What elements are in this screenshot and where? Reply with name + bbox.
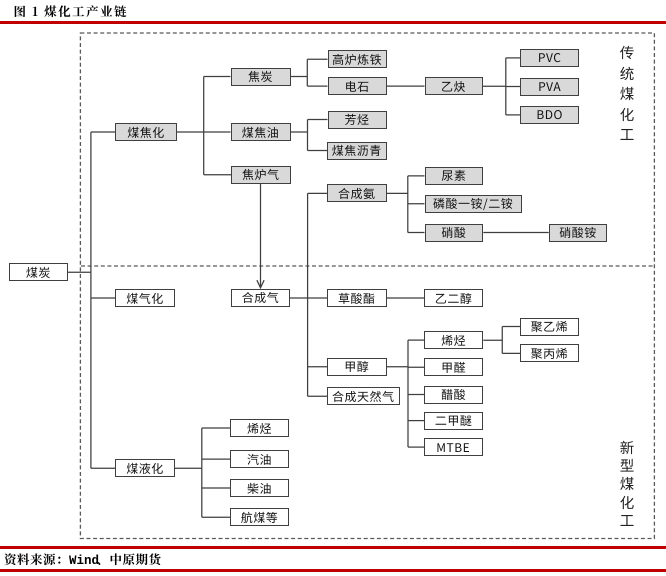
box 合成氨 <box>327 184 387 202</box>
branch vertical pvc <box>505 58 507 115</box>
dashed frame border <box>80 33 654 539</box>
box PVC <box>520 49 579 67</box>
box 煤焦沥青 <box>327 142 387 160</box>
box 烯烃 <box>230 419 289 437</box>
wire to PVC <box>506 57 520 59</box>
wire to xiting b <box>202 427 230 429</box>
box 草酸酯 <box>327 289 387 307</box>
wire to BDO <box>506 114 520 116</box>
footer red rule lower <box>0 569 666 572</box>
box 电石 <box>328 77 387 95</box>
wire to qiyou <box>202 458 230 460</box>
box 尿素 <box>425 167 484 185</box>
box 醋酸 <box>424 386 483 404</box>
box 煤焦油 <box>231 123 291 141</box>
wire to jiaotan <box>204 76 231 78</box>
branch vertical olefin <box>501 327 503 354</box>
top red rule <box>0 21 666 23</box>
box 乙二醇 <box>424 289 483 307</box>
wire trunk to meiyehua <box>91 467 115 469</box>
label 新型煤化工 <box>619 439 635 530</box>
box 高炉炼铁 <box>328 50 387 68</box>
wire to erjiami <box>408 420 424 422</box>
box 聚乙烯 <box>520 318 579 336</box>
box PVA <box>520 78 579 96</box>
wire to PVA <box>506 86 520 88</box>
wire rail to jiachun <box>308 366 327 368</box>
wire to MTBE <box>408 446 424 448</box>
box 硝酸铵 <box>549 224 608 242</box>
branch vertical liquefaction <box>201 428 203 517</box>
wire rail to SNG <box>308 395 327 397</box>
box 煤液化 <box>115 459 175 477</box>
wire to xiting m <box>408 339 424 341</box>
wire to jiaquan <box>408 366 424 368</box>
footer red rule upper <box>0 546 666 549</box>
wire hechengqi to caosuanzhi <box>290 297 327 299</box>
box 磷酸一铵/二铵 <box>425 195 522 213</box>
box 聚丙烯 <box>520 344 579 362</box>
box 乙炔 <box>425 77 483 95</box>
wire meijiaoyou to branch <box>291 131 308 133</box>
wire xiaosuan to xiaosuanan <box>483 232 548 234</box>
wire coal to trunk <box>68 271 91 273</box>
box 柴油 <box>230 479 289 497</box>
wire meijiaohua to branch <box>177 131 204 133</box>
box MTBE <box>424 438 483 456</box>
wire to linsuan <box>408 203 425 205</box>
box BDO <box>520 106 579 124</box>
wire trunk to meijiaohua <box>91 131 115 133</box>
wire meiyehua to branch <box>175 467 202 469</box>
wire to gaolu <box>307 58 327 60</box>
box 硝酸 <box>425 224 484 242</box>
wire to xiaosuan <box>408 232 425 234</box>
branch vertical ammonia <box>407 176 409 233</box>
wire syngas rail vertical <box>307 193 309 396</box>
wire to fangting <box>308 119 328 121</box>
branch vertical coking <box>203 77 205 175</box>
box 芳烃 <box>328 111 387 129</box>
wire trunk to meiqihua <box>91 297 115 299</box>
box 煤气化 <box>115 289 175 307</box>
box 二甲醚 <box>424 412 483 430</box>
box 合成天然气 <box>327 387 400 405</box>
branch vertical methanol <box>407 340 409 447</box>
branch vertical jiaotan <box>306 59 308 86</box>
trunk vertical from coal branches <box>90 132 92 468</box>
footer source text <box>4 550 162 568</box>
wire caosuanzhi to yierchun <box>387 297 425 299</box>
wire xiting to branch <box>483 339 502 341</box>
wire to cusuan <box>408 394 424 396</box>
wire to jubingxi <box>502 352 520 354</box>
box 甲醛 <box>424 358 483 376</box>
box 焦炭 <box>231 68 291 86</box>
wire jiachun to branch <box>387 366 409 368</box>
wire to meijiaoyou <box>204 131 231 133</box>
box 汽油 <box>230 450 289 468</box>
box 烯烃 <box>424 331 483 349</box>
wire jiaotan to branch <box>291 76 308 78</box>
wire yiqueng to branch <box>483 85 506 87</box>
box 焦炉气 <box>231 166 291 184</box>
title 图 1 煤化工产业链 <box>14 2 129 20</box>
dashed divider traditional/new <box>81 265 654 267</box>
box 煤焦化 <box>115 123 177 141</box>
wire to liqing <box>308 150 328 152</box>
wire to juyixi <box>502 326 520 328</box>
box 航煤等 <box>230 508 289 526</box>
box 煤炭 <box>9 263 68 281</box>
wire hechengan to branch <box>387 192 408 194</box>
wire to niaosu <box>408 175 425 177</box>
wire to jiaoluqi <box>204 174 231 176</box>
branch vertical tar <box>307 120 309 151</box>
wire rail to hechengan <box>308 192 327 194</box>
arrow jiaoluqi to hechengqi <box>257 184 264 288</box>
box 甲醇 <box>327 358 387 376</box>
label 传统煤化工 <box>619 43 635 146</box>
wire dianshi to yiqueng <box>387 85 425 87</box>
wire to chaiyou <box>202 487 230 489</box>
wire to hangmei <box>202 516 230 518</box>
box 合成气 <box>231 289 290 307</box>
wire to dianshi <box>307 85 327 87</box>
